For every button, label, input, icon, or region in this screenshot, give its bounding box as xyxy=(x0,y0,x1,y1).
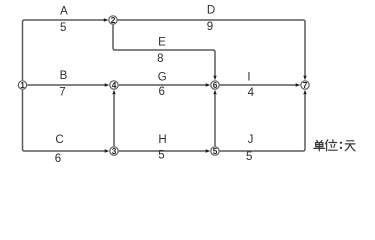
svg-text:5: 5 xyxy=(60,22,66,34)
svg-text:4: 4 xyxy=(248,87,255,99)
svg-text:5: 5 xyxy=(158,149,164,161)
arrowhead into node6 from left xyxy=(206,83,211,86)
wire dummy node3 to node4 xyxy=(113,94,115,146)
node 4 xyxy=(110,80,118,90)
wire activity E path node2 to node6 xyxy=(113,25,215,77)
node 7 xyxy=(301,80,309,90)
svg-text:6: 6 xyxy=(158,86,164,98)
unit label: tian (天) xyxy=(345,141,355,151)
arrowhead into node6 from above xyxy=(213,76,216,81)
arrowhead into node2 xyxy=(104,18,109,21)
svg-text:J: J xyxy=(248,134,254,146)
node 1 xyxy=(18,80,26,90)
svg-text:8: 8 xyxy=(157,53,163,65)
svg-text:2: 2 xyxy=(111,15,116,25)
svg-text:C: C xyxy=(55,134,63,146)
arrowhead into node5 xyxy=(206,149,211,152)
svg-text:1: 1 xyxy=(20,80,25,90)
wire activity D path node2 to node7 xyxy=(118,20,305,76)
svg-text:3: 3 xyxy=(112,146,117,156)
unit label: fullwidth colon xyxy=(340,142,342,149)
arrowhead into node7 from above xyxy=(303,76,306,81)
svg-text:H: H xyxy=(158,134,166,146)
wire activity I path node6 to node7 xyxy=(220,84,297,86)
arrowhead into node4 from below xyxy=(112,90,115,95)
arrowhead into node6 from below xyxy=(213,90,216,95)
node 6 xyxy=(211,80,219,90)
arrowhead into node3 xyxy=(105,149,110,152)
svg-text:E: E xyxy=(158,37,166,49)
node 5 xyxy=(211,146,219,156)
wire activity A path node1 to node2 xyxy=(23,20,105,80)
svg-text:5: 5 xyxy=(213,146,218,156)
arrowhead into node7 from left xyxy=(296,83,301,86)
svg-text:4: 4 xyxy=(112,80,117,90)
svg-text:A: A xyxy=(60,5,68,17)
node 2 xyxy=(109,15,117,25)
wire activity G path node4 to node6 xyxy=(119,84,207,86)
svg-text:B: B xyxy=(60,70,68,82)
wire activity H path node3 to node5 xyxy=(119,150,207,152)
arrowhead into node4 from left xyxy=(105,83,110,86)
unit label: dan (单) xyxy=(314,140,325,151)
wire activity J path node5 to node7 xyxy=(220,94,305,151)
svg-text:I: I xyxy=(247,72,250,84)
arrowhead into node7 from below xyxy=(303,90,306,95)
svg-text:6: 6 xyxy=(213,80,218,90)
wire activity B path node1 to node4 xyxy=(27,84,105,86)
node 3 xyxy=(110,146,118,156)
svg-text:6: 6 xyxy=(55,153,61,162)
wire activity C path node1 to node3 xyxy=(23,90,106,151)
svg-text:7: 7 xyxy=(59,86,65,98)
wire dummy node5 to node6 xyxy=(214,94,216,146)
svg-text:7: 7 xyxy=(303,80,308,90)
svg-text:5: 5 xyxy=(246,151,252,162)
svg-text:D: D xyxy=(207,5,215,17)
unit label: wei (位) xyxy=(326,140,338,151)
svg-text:9: 9 xyxy=(207,21,213,33)
svg-text:G: G xyxy=(158,72,167,84)
